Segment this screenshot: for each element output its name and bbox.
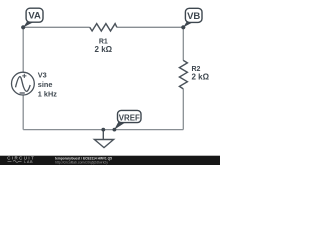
R1 value label xyxy=(95,39,113,54)
wire R1 to top-right xyxy=(117,26,183,28)
voltage source V3 xyxy=(12,72,35,95)
CircuitLab logo xyxy=(7,156,34,164)
V3 value label xyxy=(38,71,57,99)
svg-text:V3: V3 xyxy=(38,71,47,80)
resistor R2 xyxy=(179,60,187,89)
wire top-left to R1 xyxy=(23,26,90,28)
node VREF flag xyxy=(114,110,141,129)
svg-text:VA: VA xyxy=(28,11,41,22)
footer bar xyxy=(0,156,220,165)
wire right vertical upper xyxy=(182,27,184,60)
node VA flag xyxy=(23,8,43,27)
resistor R1 xyxy=(90,24,117,31)
svg-text:http://circuitlab.com/c/9q6j2d: http://circuitlab.com/c/9q6j2dtwrk2y xyxy=(55,161,108,165)
wire right vertical lower xyxy=(182,89,184,130)
svg-text:VB: VB xyxy=(187,11,200,22)
R2 value label xyxy=(192,66,210,81)
svg-text:LAB: LAB xyxy=(24,160,33,164)
node dot VREF xyxy=(113,128,117,132)
footer text xyxy=(55,155,113,164)
svg-text:2 kΩ: 2 kΩ xyxy=(95,45,113,54)
node dot ground xyxy=(101,128,105,132)
wire bottom xyxy=(23,129,183,131)
svg-text:1 kHz: 1 kHz xyxy=(38,90,57,99)
svg-text:VREF: VREF xyxy=(119,113,140,122)
svg-text:sine: sine xyxy=(38,80,53,89)
ground xyxy=(94,130,113,148)
node VB flag xyxy=(183,8,202,27)
svg-text:2 kΩ: 2 kΩ xyxy=(192,73,210,82)
wire left vertical upper xyxy=(22,27,24,72)
wire left vertical lower xyxy=(22,95,24,129)
node dot VB xyxy=(181,25,185,29)
node dot VA xyxy=(21,25,25,29)
